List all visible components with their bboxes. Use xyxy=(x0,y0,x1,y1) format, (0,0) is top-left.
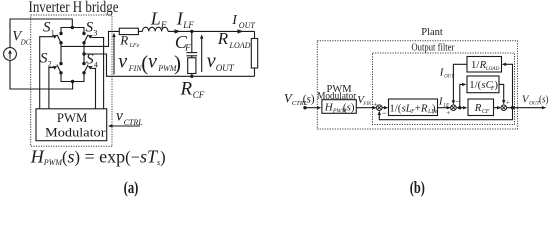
svg-text:LF: LF xyxy=(182,20,194,30)
wire sum C to output VOUT(s) xyxy=(507,107,544,109)
switch S2 xyxy=(59,62,62,65)
svg-text:2: 2 xyxy=(48,59,52,68)
svg-text:F: F xyxy=(184,43,191,53)
svg-text:S: S xyxy=(86,20,94,36)
wire input to HPWM xyxy=(305,107,318,109)
svg-text:1/(: 1/( xyxy=(389,102,401,114)
wire sum B to RCF block xyxy=(456,107,464,109)
svg-text:OUT: OUT xyxy=(216,63,235,73)
wire G1 to sum B xyxy=(438,107,449,109)
switch S4 xyxy=(82,62,85,65)
svg-text:+: + xyxy=(446,109,450,117)
current arrow IOUT xyxy=(238,29,244,33)
svg-text:Inverter H bridge: Inverter H bridge xyxy=(29,0,119,16)
svg-text:3: 3 xyxy=(93,28,97,37)
resistor RLFe xyxy=(119,28,138,34)
svg-text:L: L xyxy=(150,8,161,28)
svg-text:v: v xyxy=(207,50,216,72)
voltage arrow vOUT xyxy=(201,37,203,72)
switch S1 xyxy=(59,32,62,35)
wire gate S1 xyxy=(40,37,54,109)
svg-text:1/(: 1/( xyxy=(469,79,481,91)
wire top rail xyxy=(61,28,84,34)
wire G4 out to sum B (IOUT) xyxy=(453,64,467,102)
svg-text:LOAD: LOAD xyxy=(229,41,251,50)
wire gate S2 xyxy=(49,68,53,109)
PWM modulator box xyxy=(36,109,107,141)
svg-text:): ) xyxy=(494,79,498,91)
svg-text:CF: CF xyxy=(482,109,490,115)
node top center xyxy=(71,26,74,29)
svg-text:F: F xyxy=(160,20,167,30)
inverter H bridge dashed enclosure xyxy=(31,15,112,146)
block G3 RCF xyxy=(468,99,494,116)
wire bridge output B to load return xyxy=(84,54,255,76)
svg-text:S: S xyxy=(43,20,51,36)
svg-text:v: v xyxy=(116,107,123,124)
resistor RCF xyxy=(191,56,193,58)
wire G3 to sum C xyxy=(494,107,499,109)
svg-text:PWM: PWM xyxy=(57,110,88,125)
svg-text:(s): (s) xyxy=(343,102,355,114)
Plant dashed box xyxy=(317,41,517,129)
svg-text:FIN: FIN xyxy=(128,64,143,73)
svg-text:R: R xyxy=(474,102,482,114)
wire gate S4 xyxy=(92,68,96,108)
svg-text:LFe: LFe xyxy=(129,43,140,49)
wire right leg xyxy=(83,43,85,64)
wire VDC top feed xyxy=(10,19,72,48)
block G4 1/RLOAD xyxy=(467,57,502,73)
svg-text:(s): (s) xyxy=(303,94,315,106)
svg-text:OUT: OUT xyxy=(444,75,454,80)
svg-text:OUT: OUT xyxy=(239,21,256,30)
svg-text:DC: DC xyxy=(20,38,31,46)
svg-text:v: v xyxy=(118,51,127,73)
node bottom center xyxy=(71,80,74,83)
node capacitor tap xyxy=(190,30,193,33)
svg-text:S: S xyxy=(40,50,48,66)
node tap to 1/(sCF) xyxy=(458,106,461,109)
svg-text:R: R xyxy=(119,33,128,48)
wire VDC return xyxy=(10,60,73,89)
Output filter dashed box xyxy=(373,53,515,125)
svg-text:R: R xyxy=(217,29,229,48)
wire HPWM to sum A xyxy=(356,107,374,109)
svg-text:+: + xyxy=(506,99,510,107)
summing junction C xyxy=(501,105,507,111)
source VDC xyxy=(4,48,17,61)
inductor LF xyxy=(142,27,168,31)
svg-text:1/: 1/ xyxy=(471,59,479,71)
wire filter to load xyxy=(168,30,255,32)
svg-text:v: v xyxy=(148,51,157,73)
svg-text:Modulator: Modulator xyxy=(45,124,106,139)
current arrow ILF xyxy=(175,29,181,33)
switch S3 xyxy=(82,32,85,35)
svg-text:LOAD: LOAD xyxy=(485,66,500,72)
svg-text:R: R xyxy=(180,79,193,100)
node right leg mid xyxy=(82,52,85,55)
svg-text:Output filter: Output filter xyxy=(411,43,454,54)
wire gate S3 xyxy=(92,38,104,109)
wire bottom rail xyxy=(61,73,84,82)
wire G2 out to sum C xyxy=(499,84,504,101)
wire feedback to 1/RLOAD xyxy=(504,64,512,107)
block G2 1/(sCF) xyxy=(467,76,499,93)
node output tap xyxy=(511,106,514,109)
svg-text:(b): (b) xyxy=(410,178,425,197)
wire sum A to block G1 xyxy=(382,107,386,109)
summing junction A xyxy=(377,105,383,111)
svg-text:Plant: Plant xyxy=(421,27,443,38)
svg-text:): ) xyxy=(432,102,436,114)
svg-text:FIN: FIN xyxy=(362,102,372,107)
wire tap up to 1/(sCF) input xyxy=(460,84,464,107)
svg-text:(s): (s) xyxy=(539,95,549,106)
block G1 1/(sLF+RLFe) xyxy=(389,99,438,116)
voltage arrow vFIN xyxy=(113,35,115,74)
resistor RLOAD xyxy=(254,31,256,38)
svg-text:R: R xyxy=(420,102,428,114)
svg-text:CTRL: CTRL xyxy=(124,118,144,127)
svg-text:+: + xyxy=(373,100,377,108)
wire vCTRL input xyxy=(111,125,140,127)
svg-text:(a): (a) xyxy=(124,178,139,197)
wire outer feedback VOUT to sum A xyxy=(379,108,512,120)
block HPWM(s) xyxy=(322,100,356,114)
svg-text:): ) xyxy=(174,51,181,75)
node input terminal xyxy=(303,106,306,109)
capacitor CF xyxy=(191,31,193,52)
wire bridge output A to filter xyxy=(61,31,119,46)
summing junction B xyxy=(451,105,457,111)
svg-text:CF: CF xyxy=(193,90,205,100)
wire left leg xyxy=(60,43,62,64)
